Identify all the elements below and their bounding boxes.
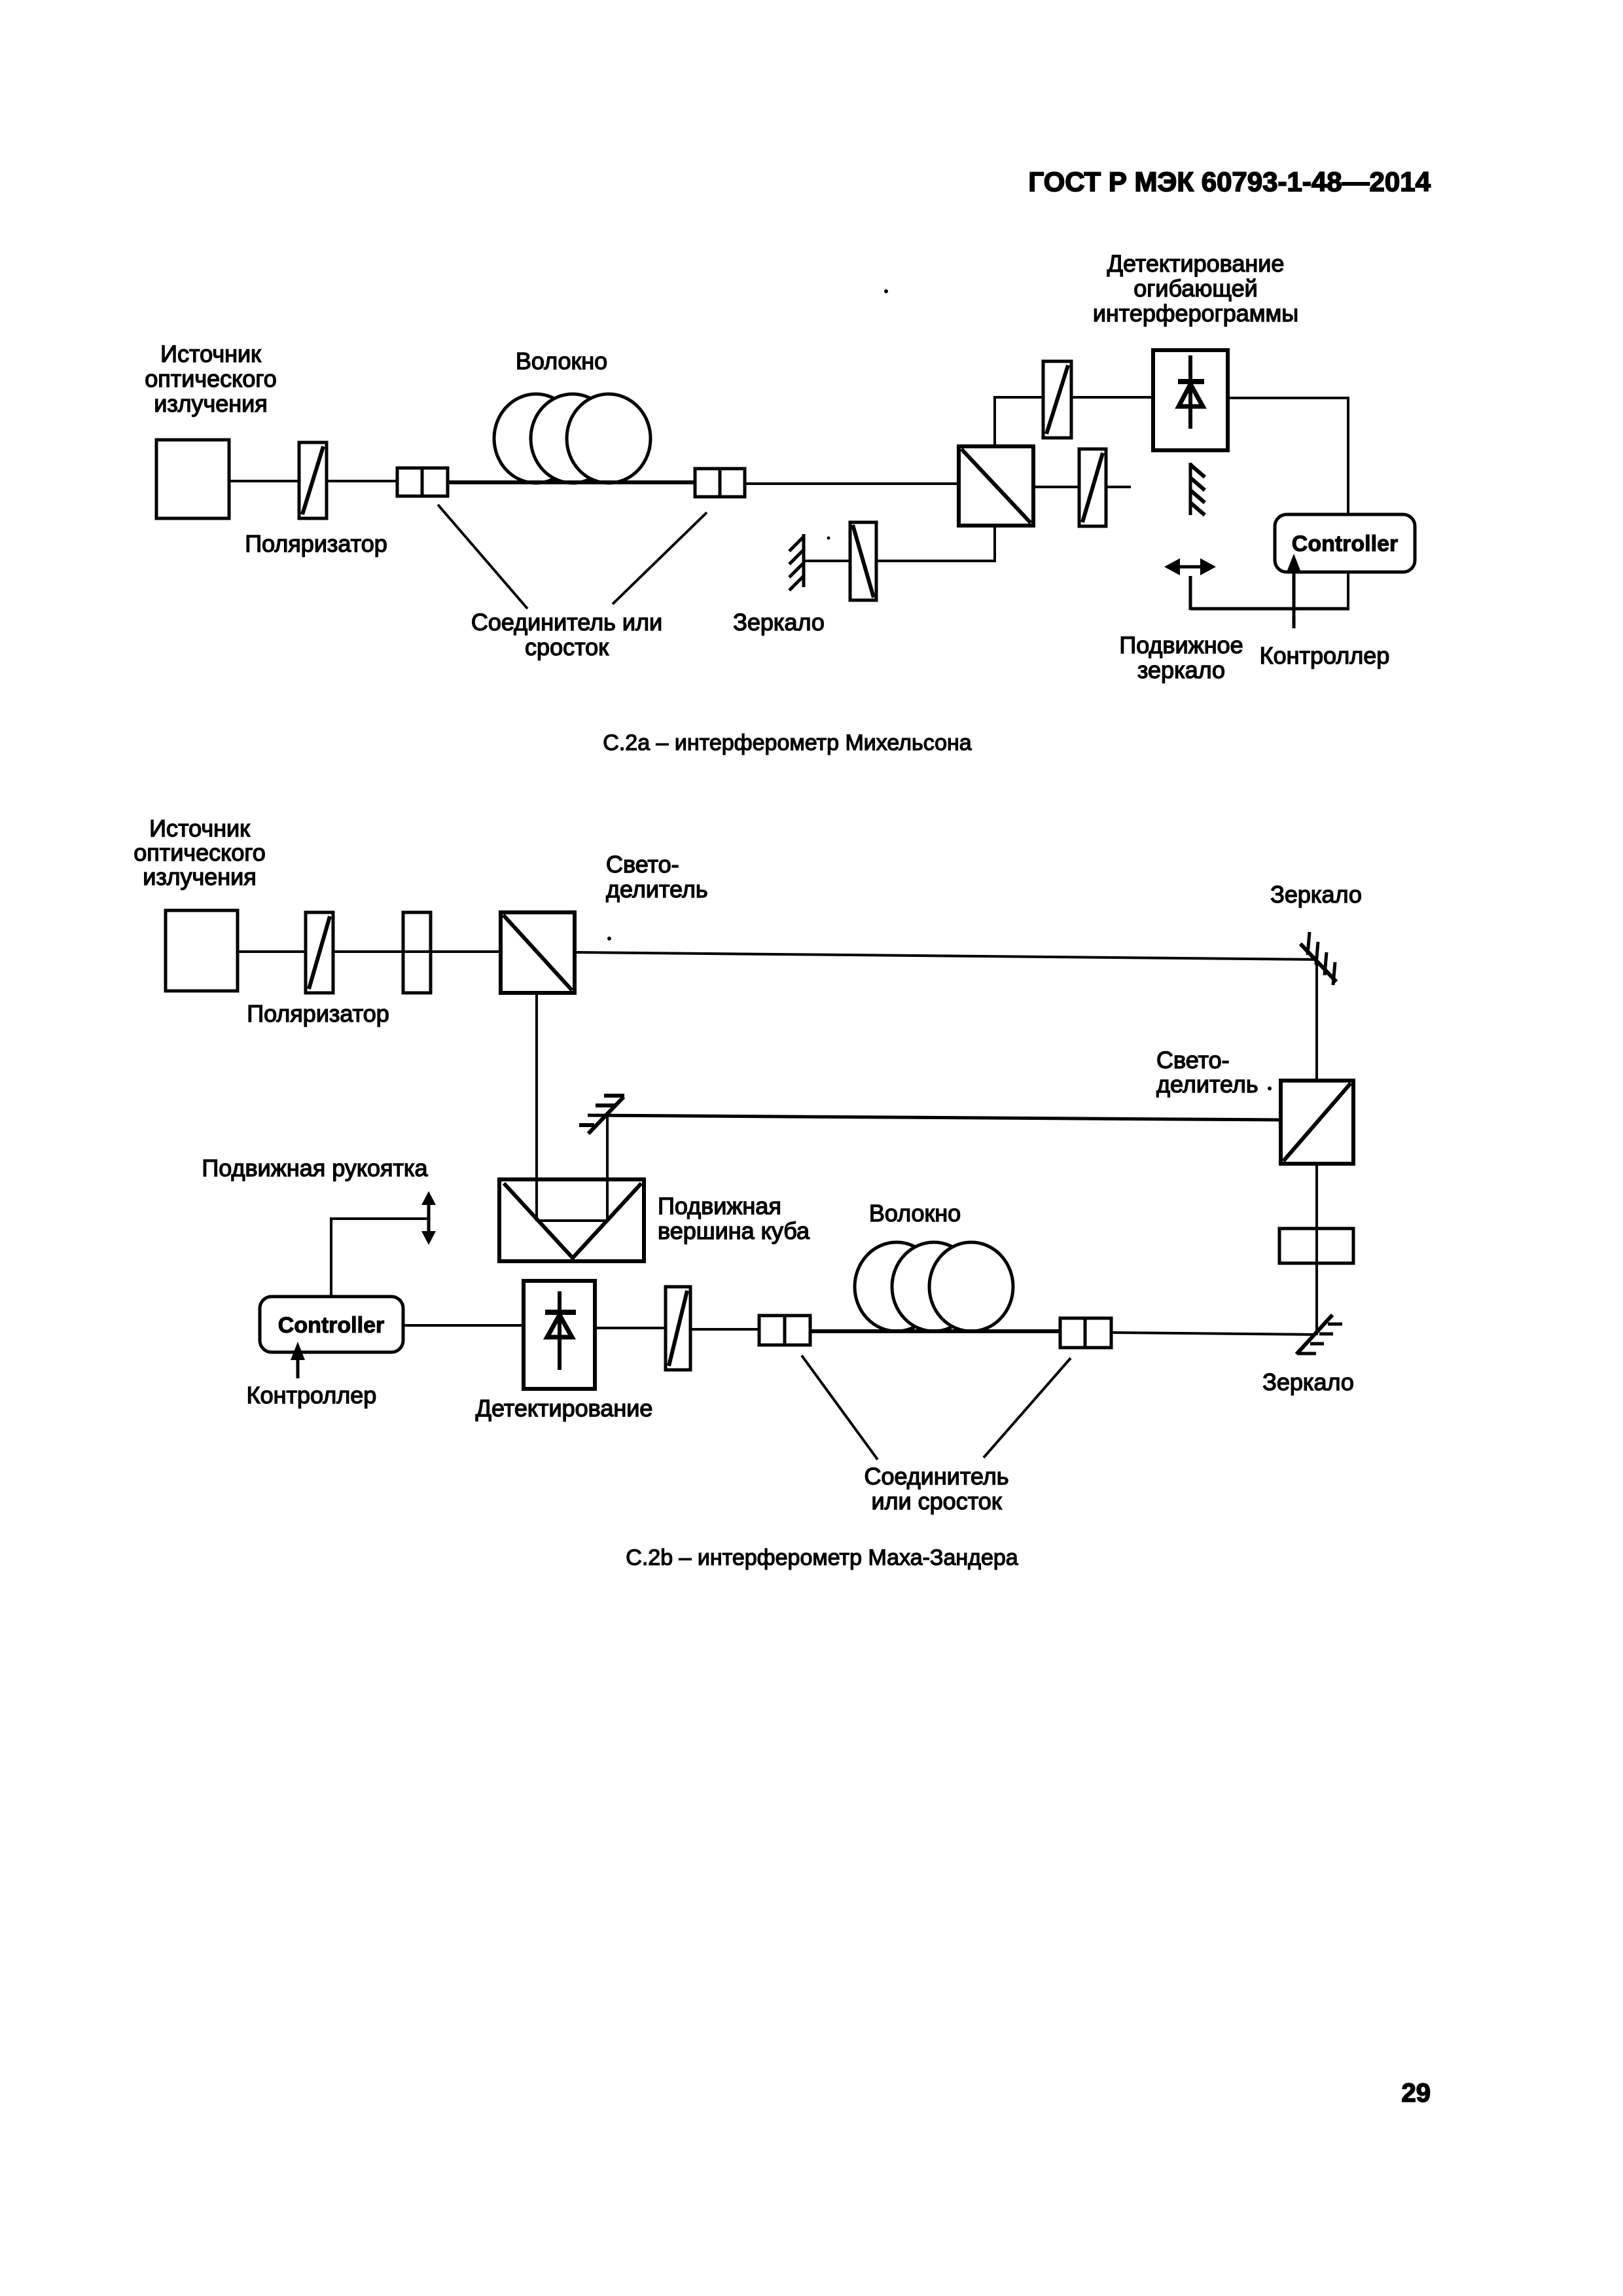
connector 4 bbox=[1060, 1318, 1111, 1348]
fiber wire connector3 to connector4 bbox=[810, 1329, 1060, 1333]
label Подвижное зеркало bbox=[1119, 632, 1243, 683]
svg-text:Волокно: Волокно bbox=[869, 1200, 961, 1227]
wire connector2 to beamsplitter bbox=[745, 482, 959, 485]
svg-text:Волокно: Волокно bbox=[516, 348, 607, 374]
svg-text:огибающей: огибающей bbox=[1133, 275, 1257, 302]
long wire BS2 to top-right mirror bbox=[575, 952, 1317, 960]
svg-text:излучения: излучения bbox=[154, 390, 267, 417]
svg-text:Контроллер: Контроллер bbox=[1260, 642, 1390, 669]
svg-text:Источник: Источник bbox=[149, 815, 250, 842]
beamsplitter BS1 bbox=[959, 446, 1033, 526]
vertical double headed arrow (handle travel) bbox=[421, 1191, 436, 1245]
wire across inside corner cube bbox=[537, 1219, 607, 1222]
coupling device (Соединительное устройство) bbox=[850, 522, 876, 600]
svg-text:Свето-: Свето- bbox=[1156, 1047, 1230, 1073]
wire source2 to polarizer bbox=[238, 950, 306, 953]
beamsplitter BS3 bbox=[1281, 1081, 1353, 1164]
wire mirror1 to coupling device bbox=[805, 560, 850, 562]
double headed arrow (mirror travel) bbox=[1164, 558, 1216, 575]
connector 3 bbox=[759, 1316, 810, 1345]
wire corner cube up to 45° fold mirror bbox=[606, 1115, 609, 1222]
label Детектирование огибающей интерферограммы bbox=[1093, 250, 1298, 327]
beamsplitter BS2 bbox=[501, 912, 575, 993]
svg-text:Контроллер: Контроллер bbox=[247, 1382, 377, 1408]
polarizer P1 bbox=[299, 442, 327, 518]
label source 2 (Источник оптического излучения) bbox=[134, 815, 265, 890]
movable mirror (hatched) below detector bbox=[1190, 463, 1205, 515]
svg-text:Соединитель или: Соединитель или bbox=[471, 609, 662, 636]
polarizer P4 bbox=[306, 912, 333, 993]
wire controller2 to double arrow bbox=[331, 1217, 429, 1297]
pointer line from connector 4 bbox=[984, 1358, 1071, 1458]
svg-text:ГОСТ Р МЭК 60793-1-48—2014: ГОСТ Р МЭК 60793-1-48—2014 bbox=[1028, 166, 1431, 197]
svg-text:29: 29 bbox=[1402, 2079, 1431, 2108]
svg-text:вершина куба: вершина куба bbox=[658, 1217, 810, 1244]
wire source to polarizer bbox=[229, 480, 299, 482]
speck dot near BS2 bbox=[607, 937, 611, 941]
plain plate (retarder) bbox=[403, 912, 431, 993]
svg-text:или сросток: или сросток bbox=[871, 1488, 1001, 1515]
fiber wire connector1 to connector2 bbox=[448, 480, 695, 484]
svg-text:Подвижное: Подвижное bbox=[1119, 632, 1243, 658]
wire polarizer P5 to connector 3 bbox=[690, 1328, 759, 1331]
optical source box 1 bbox=[156, 440, 229, 518]
svg-text:Поляризатор: Поляризатор bbox=[247, 1000, 389, 1027]
right polarizer P3 bbox=[1079, 449, 1106, 526]
svg-text:оптического: оптического bbox=[134, 839, 265, 866]
svg-text:Детектирование: Детектирование bbox=[1107, 250, 1285, 277]
corner cube (Подвижная вершина куба) bbox=[499, 1179, 644, 1261]
wire top-right mirror down to beamsplitter BS3 bbox=[1315, 960, 1318, 1081]
arrow up into controller 2 bbox=[291, 1342, 305, 1378]
svg-text:Поляризатор: Поляризатор bbox=[245, 530, 387, 557]
top-right mirror (hatched 45°) bbox=[1300, 932, 1336, 985]
label Соединитель или сросток bbox=[864, 1463, 1008, 1515]
pointer line from connector 1 bbox=[438, 505, 527, 609]
connector 2 bbox=[695, 469, 745, 497]
fixed mirror 1 (hatched) bbox=[789, 534, 804, 590]
svg-text:Controller: Controller bbox=[1292, 531, 1398, 556]
wire polarizer through plain plate to beamsplitter BS2 bbox=[333, 950, 501, 953]
wire upper polarizer to detector bbox=[1071, 396, 1153, 399]
wire detector2 to polarizer P5 bbox=[595, 1327, 666, 1329]
svg-text:зеркало: зеркало bbox=[1137, 656, 1225, 683]
wire beamsplitter right to polarizer P3 bbox=[1033, 486, 1079, 488]
svg-text:Зеркало: Зеркало bbox=[733, 609, 825, 636]
connector 1 bbox=[397, 468, 448, 496]
svg-text:делитель: делитель bbox=[606, 876, 708, 903]
wire coupling device to beamsplitter bottom bbox=[876, 526, 995, 562]
speck dots bbox=[884, 289, 888, 293]
wire BS2 down into corner cube bbox=[535, 993, 538, 1221]
svg-text:Детектирование: Детектирование bbox=[476, 1395, 653, 1422]
svg-text:излучения: излучения bbox=[143, 863, 256, 890]
label Подвижная вершина куба bbox=[658, 1193, 810, 1244]
controller box 1 bbox=[1275, 514, 1415, 572]
svg-text:Зеркало: Зеркало bbox=[1270, 881, 1362, 908]
wire beamsplitter top to upper polarizer bbox=[993, 397, 1043, 446]
wire stub after polarizer P3 bbox=[1106, 486, 1131, 488]
optical source box 2 bbox=[166, 910, 238, 991]
plain plate 2 bbox=[1279, 1229, 1353, 1263]
label Свето-делитель (right) bbox=[1156, 1047, 1272, 1098]
svg-text:Соединитель: Соединитель bbox=[864, 1463, 1008, 1490]
45° fold mirror (hatched) bbox=[579, 1096, 624, 1134]
wire detector right to controller loop bbox=[1190, 397, 1349, 610]
svg-text:интерферограммы: интерферограммы bbox=[1093, 300, 1298, 327]
label Соединитель или сросток bbox=[471, 609, 662, 660]
pointer line from connector 3 bbox=[802, 1355, 878, 1460]
wire polarizer to connector 1 bbox=[327, 480, 397, 482]
svg-text:сросток: сросток bbox=[525, 634, 609, 660]
wire 45° fold mirror to BS3 bbox=[588, 1115, 1281, 1120]
wire controller2 to detector2 bbox=[403, 1324, 524, 1327]
svg-text:Controller: Controller bbox=[278, 1313, 384, 1338]
pointer line from connector 2 bbox=[613, 512, 707, 604]
polarizer P5 bbox=[666, 1287, 690, 1370]
svg-text:Источник: Источник bbox=[160, 340, 261, 367]
svg-text:Зеркало: Зеркало bbox=[1262, 1369, 1354, 1395]
controller box 2 bbox=[260, 1297, 403, 1352]
wire BS3 down through plate to bottom mirror bbox=[1315, 1164, 1318, 1335]
label source (Источник оптического излучения) bbox=[145, 340, 276, 417]
fiber coil 1 bbox=[494, 394, 651, 483]
svg-text:Подвижная: Подвижная bbox=[658, 1193, 781, 1219]
detector box 2 (Детектирование) bbox=[524, 1281, 595, 1389]
svg-text:С.2а – интерферометр Михельсон: С.2а – интерферометр Михельсона bbox=[603, 730, 972, 755]
svg-text:оптического: оптического bbox=[145, 365, 276, 392]
svg-text:C.2b – интерферометр Маха-Занд: C.2b – интерферометр Маха-Зандера bbox=[626, 1545, 1018, 1570]
detector box 1 (Детектирование огибающей интерферограммы) bbox=[1153, 350, 1228, 450]
arrow from loop wire up into controller bbox=[1287, 554, 1301, 628]
svg-text:Подвижная рукоятка: Подвижная рукоятка bbox=[202, 1155, 428, 1181]
upper polarizer P2 bbox=[1043, 361, 1071, 438]
wire connector4 to bottom-right mirror bbox=[1111, 1333, 1315, 1335]
bottom-right mirror (hatched 45°) bbox=[1296, 1315, 1342, 1354]
svg-text:Свето-: Свето- bbox=[606, 851, 679, 878]
label Свето-делитель (left) bbox=[606, 851, 708, 903]
fiber coil 2 bbox=[855, 1242, 1013, 1331]
svg-text:делитель: делитель bbox=[1156, 1071, 1258, 1098]
